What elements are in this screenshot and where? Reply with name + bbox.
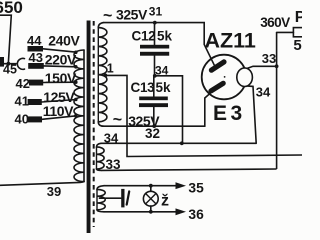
svg-text:110V: 110V — [43, 103, 74, 119]
svg-text:~: ~ — [113, 112, 122, 129]
svg-text:34: 34 — [104, 130, 119, 145]
svg-text:240V: 240V — [48, 33, 80, 49]
svg-text:43: 43 — [29, 50, 43, 65]
svg-text:41: 41 — [15, 94, 29, 109]
svg-text:40: 40 — [15, 112, 29, 127]
svg-text:220V: 220V — [45, 51, 77, 67]
svg-text:50: 50 — [293, 37, 302, 54]
svg-text:32: 32 — [145, 126, 160, 141]
svg-text:P: P — [295, 9, 302, 26]
svg-text:E3: E3 — [213, 102, 246, 125]
svg-text:36: 36 — [188, 207, 204, 222]
svg-text:33: 33 — [262, 51, 276, 66]
svg-text:5k: 5k — [156, 80, 172, 95]
svg-text:5k: 5k — [157, 29, 173, 44]
svg-text:650: 650 — [0, 0, 23, 17]
svg-text:150V: 150V — [45, 70, 77, 86]
svg-text:~: ~ — [103, 8, 112, 25]
svg-text:AZ11: AZ11 — [205, 29, 256, 53]
svg-text:31: 31 — [149, 5, 163, 19]
svg-text:1: 1 — [107, 62, 114, 76]
svg-text:39: 39 — [47, 184, 61, 199]
svg-text:33: 33 — [106, 157, 122, 172]
svg-text:45: 45 — [3, 63, 17, 77]
svg-text:42: 42 — [16, 76, 30, 91]
svg-text:44: 44 — [27, 33, 42, 48]
svg-text:34: 34 — [155, 63, 169, 77]
svg-text:325V: 325V — [116, 6, 148, 22]
svg-text:360V: 360V — [260, 15, 290, 30]
svg-text:35: 35 — [188, 180, 204, 195]
svg-text:ž: ž — [161, 193, 169, 210]
svg-text:C13: C13 — [131, 80, 156, 95]
svg-text:34: 34 — [256, 85, 271, 100]
svg-text:C12: C12 — [132, 28, 156, 43]
